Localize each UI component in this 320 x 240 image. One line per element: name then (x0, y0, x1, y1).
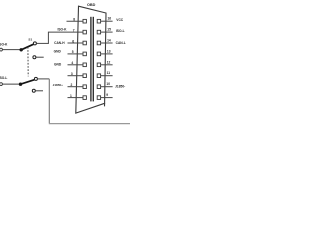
pin 4 contact box (83, 63, 86, 67)
pin 11 contact box (97, 74, 100, 78)
svg-text:ISO-L: ISO-L (116, 29, 125, 33)
svg-text:OBD: OBD (87, 3, 96, 7)
svg-text:GND: GND (54, 62, 62, 66)
terminal ISO-K input (0, 48, 2, 51)
pin 1 contact box (83, 96, 86, 100)
svg-text:13: 13 (107, 49, 111, 53)
junction S1a pivot (20, 48, 23, 51)
svg-text:6: 6 (72, 39, 74, 43)
svg-text:3: 3 (71, 72, 73, 76)
svg-text:VCC: VCC (116, 18, 124, 22)
pin 10 contact box (97, 85, 100, 89)
wire S1b throw 2 stub (35, 90, 43, 92)
pin 8 wire (67, 20, 84, 22)
svg-text:2: 2 (70, 83, 72, 87)
pin 6 wire CAN-H net (68, 42, 84, 44)
svg-text:ISO-K: ISO-K (57, 28, 67, 32)
pin 9 contact box (97, 96, 100, 100)
switch S1b arm (21, 80, 35, 85)
pin 2 contact box (83, 85, 86, 89)
pin 3 wire (68, 75, 84, 77)
wire S1b throw 1 horizontal (37, 78, 49, 80)
svg-text:8: 8 (73, 18, 75, 22)
pin 5 wire GND net (68, 53, 84, 55)
pin 13 contact box (97, 52, 100, 56)
svg-text:CAN-H: CAN-H (54, 41, 65, 45)
svg-text:16: 16 (108, 17, 112, 21)
svg-text:4: 4 (71, 61, 73, 65)
switch S1a throw 1 contact (33, 42, 36, 45)
switch S1a arm (21, 44, 33, 50)
wire S1a throw 2 stub (36, 56, 44, 58)
svg-text:CAN-L: CAN-L (116, 41, 126, 45)
svg-text:5: 5 (72, 50, 74, 54)
switch S1 gang linkage dashed (27, 47, 29, 77)
svg-text:J1850+: J1850+ (53, 83, 63, 87)
wire S1a throw 1 to pin 7 vertical (47, 32, 49, 44)
pin 16 wire VCC net (101, 20, 113, 22)
switch S1a throw 2 contact (33, 56, 36, 59)
pin 1 wire (68, 97, 84, 99)
svg-text:14: 14 (107, 39, 111, 43)
pin 10 wire J1850- net (101, 86, 113, 88)
connector CN1 shell right edge overshoot tick (104, 103, 106, 106)
pin 14 contact box (97, 41, 100, 45)
svg-text:11: 11 (107, 71, 111, 75)
pin 4 wire GND net (68, 64, 84, 66)
pin 9 wire (101, 97, 113, 99)
pin 16 contact box (97, 19, 100, 23)
svg-text:1: 1 (70, 94, 72, 98)
switch S1b throw 1 contact (34, 77, 37, 80)
svg-text:12: 12 (107, 60, 111, 64)
pin 15 contact box (97, 30, 100, 34)
connector CN1 center bar left (90, 17, 91, 102)
svg-text:S1: S1 (28, 38, 32, 42)
pin 6 contact box (83, 41, 86, 45)
pin 7 wire ISO-K net (48, 31, 83, 33)
pin 3 contact box (83, 74, 86, 78)
svg-text:ISO-L: ISO-L (0, 76, 7, 80)
pin 12 wire (101, 64, 113, 66)
connector CN1 OBD outline (76, 6, 106, 113)
wire ISO-L terminal to S1b pivot (2, 83, 20, 85)
pin 13 wire (101, 53, 113, 55)
pin 8 contact box (83, 19, 86, 23)
connector CN1 center bar right (93, 17, 94, 102)
pin 15 wire ISO-L net (101, 31, 113, 33)
svg-text:ISO-K: ISO-K (0, 43, 8, 47)
wire ISO-L route vertical (48, 79, 50, 123)
svg-text:10: 10 (106, 82, 110, 86)
pin 12 contact box (97, 63, 100, 67)
switch S1b throw 2 contact (32, 89, 35, 92)
terminal ISO-L input (0, 83, 2, 86)
pin 5 contact box (83, 52, 86, 56)
junction S1b pivot (19, 83, 22, 86)
svg-text:7: 7 (73, 28, 75, 32)
svg-text:15: 15 (107, 28, 111, 32)
svg-text:GND: GND (54, 50, 62, 54)
svg-text:9: 9 (106, 93, 108, 97)
pin 2 wire J1850+ net (68, 86, 84, 88)
pin 11 wire (101, 75, 113, 77)
wire ISO-L route bottom horizontal (49, 123, 130, 125)
svg-text:J1850-: J1850- (115, 85, 125, 89)
wire S1a throw 1 to pin 7 horizontal (36, 42, 48, 44)
pin 7 contact box (83, 30, 86, 34)
pin 14 wire CAN-L net (101, 42, 113, 44)
wire ISO-K terminal to S1a pivot (2, 49, 21, 51)
